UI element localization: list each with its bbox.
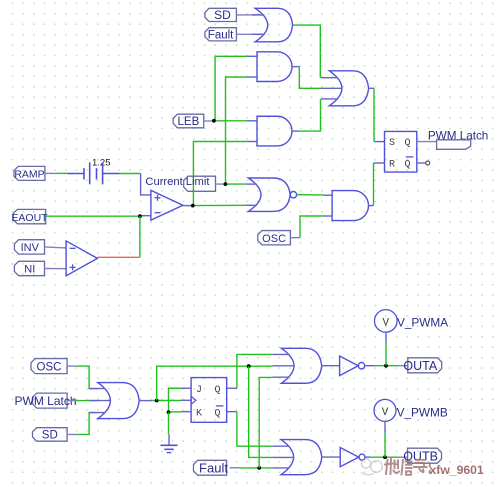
wire INV to U9: [45, 247, 67, 248]
wire OSC to U10: [67, 366, 98, 389]
wire latch Q to PWM Latch port: [417, 141, 437, 143]
probe V_PWMA: [375, 310, 398, 333]
wire probe B: [384, 422, 386, 458]
port OUTA: [403, 358, 441, 373]
wire U3 out to U2: [292, 67, 321, 89]
port SD (bottom): [33, 428, 68, 442]
wire Fault: [230, 467, 273, 469]
svg-text:K: K: [196, 409, 202, 420]
label V_PWMB: [397, 406, 448, 420]
port LEB: [173, 114, 204, 128]
wire NI to U9: [45, 268, 67, 270]
junction K: [167, 410, 171, 414]
and-gate U4: [247, 116, 292, 146]
wire OSC to U6: [290, 216, 323, 238]
junction OUTA: [384, 364, 388, 368]
sr-latch U7: [385, 131, 417, 172]
svg-text:Current Limit: Current Limit: [145, 176, 210, 188]
wire U10 out to JK clock: [139, 399, 191, 401]
port SD (top): [205, 8, 237, 22]
port NI: [14, 261, 44, 275]
svg-text:Q: Q: [405, 160, 411, 171]
wire U1 out to U2: [293, 25, 320, 78]
inverter U15: [340, 448, 365, 467]
junction EAOUT: [138, 214, 142, 218]
inverter U14: [340, 356, 365, 376]
svg-text:V: V: [382, 317, 389, 329]
wire comparator to U4 in2: [193, 142, 247, 206]
label V_PWMA: [397, 315, 448, 329]
wire PWMLatch to U10: [67, 400, 98, 402]
wire U8 out: [183, 204, 246, 206]
wire U9 out (red): [97, 256, 139, 258]
and-gate U3: [247, 52, 292, 82]
wire Qbar to U13: [227, 412, 273, 447]
svg-text:Fault: Fault: [199, 460, 228, 475]
wire SD to U1: [236, 14, 264, 16]
wire U12 out: [322, 365, 340, 367]
svg-text:SD: SD: [42, 430, 58, 442]
svg-text:Q: Q: [215, 409, 221, 420]
svg-text:V_PWMA: V_PWMA: [397, 315, 448, 329]
junction U8 out: [191, 204, 195, 208]
battery V1 1.25: [68, 158, 120, 185]
comparator U8: [151, 190, 183, 220]
junction OUTB: [383, 455, 387, 459]
ground: [161, 445, 178, 452]
wire RAMP to battery: [45, 172, 68, 174]
wire K: [169, 411, 192, 413]
wire battery to comparator +: [120, 174, 151, 195]
wire blanking down: [249, 366, 273, 457]
or-gate U1: [252, 8, 293, 42]
probe V_PWMB: [374, 399, 396, 421]
or-gate U2 (3-in): [321, 71, 369, 106]
port Fault (bottom): [194, 460, 229, 475]
port PWM Latch (top): [428, 130, 488, 150]
wire LEB to U3 in1: [215, 56, 247, 121]
op-amp U9: [66, 241, 97, 276]
wire U4 out to U2: [292, 99, 321, 131]
svg-text:Fault: Fault: [208, 30, 234, 42]
wire blanking up: [157, 366, 273, 400]
or-gate U13: [272, 440, 322, 475]
wire K to ground: [168, 412, 171, 445]
junction clock: [155, 399, 159, 403]
svg-text:OSC: OSC: [262, 233, 286, 245]
svg-text:Q: Q: [405, 138, 411, 149]
wire U2 out to latch S: [369, 88, 385, 141]
svg-text:OSC: OSC: [37, 362, 62, 374]
wire SD to U10: [67, 413, 98, 435]
text Current Limit: [145, 176, 210, 188]
wire EAOUT down to erroramp: [139, 216, 141, 257]
wire EAOUT: [46, 215, 151, 218]
wire latch Qbar nc: [417, 161, 430, 165]
port Current Limit: [184, 176, 216, 191]
wire probe A: [385, 332, 387, 366]
wire U13 out: [322, 456, 340, 458]
wire Fault up to U12: [259, 377, 272, 468]
svg-text:RAMP: RAMP: [14, 169, 44, 181]
svg-text:LEB: LEB: [178, 116, 200, 128]
jk-ff U11: [191, 378, 227, 423]
wire LEB: [204, 120, 247, 122]
wire U14 out to OUTA: [365, 365, 408, 367]
wire U5 out to U6: [297, 194, 323, 196]
and-gate U6: [323, 191, 369, 221]
wire CurrentLimit to U3 in2: [226, 77, 247, 184]
port OSC (top): [258, 231, 291, 245]
wire Q to U12: [227, 354, 273, 388]
wire J loop: [169, 388, 192, 412]
svg-text:xfw_9601: xfw_9601: [430, 463, 484, 477]
svg-text:J: J: [196, 385, 202, 396]
port INV: [14, 240, 44, 254]
port OUTB: [403, 448, 441, 463]
junction Fault: [257, 466, 261, 470]
wire Fault to U1: [236, 33, 264, 35]
svg-text:OUTA: OUTA: [403, 359, 437, 373]
watermark: [361, 459, 484, 477]
svg-text:EAOUT: EAOUT: [11, 212, 48, 224]
or-gate U10: [89, 383, 139, 419]
wire U6 out to latch R: [369, 163, 385, 206]
or-gate U12: [272, 348, 321, 383]
svg-text:V_PWMB: V_PWMB: [397, 406, 448, 420]
nor-gate U5: [246, 178, 297, 211]
svg-text:R: R: [389, 160, 395, 171]
port Fault (top): [205, 28, 237, 42]
port OSC (bottom): [31, 359, 67, 374]
svg-text:INV: INV: [21, 242, 40, 254]
svg-text:NI: NI: [24, 264, 35, 276]
junction Current Limit: [224, 182, 228, 186]
junction LEB: [212, 119, 216, 123]
svg-text:Q: Q: [215, 385, 221, 396]
port EAOUT: [11, 209, 48, 223]
junction blanking: [247, 364, 251, 368]
svg-text:S: S: [389, 138, 395, 149]
wire Current Limit: [216, 183, 246, 185]
svg-text:V: V: [382, 407, 389, 419]
svg-text:SD: SD: [214, 8, 231, 22]
port RAMP: [14, 166, 45, 180]
wire U15 out to OUTB: [365, 456, 408, 458]
port PWM Latch (bottom): [15, 393, 77, 408]
svg-text:1.25: 1.25: [92, 158, 111, 169]
